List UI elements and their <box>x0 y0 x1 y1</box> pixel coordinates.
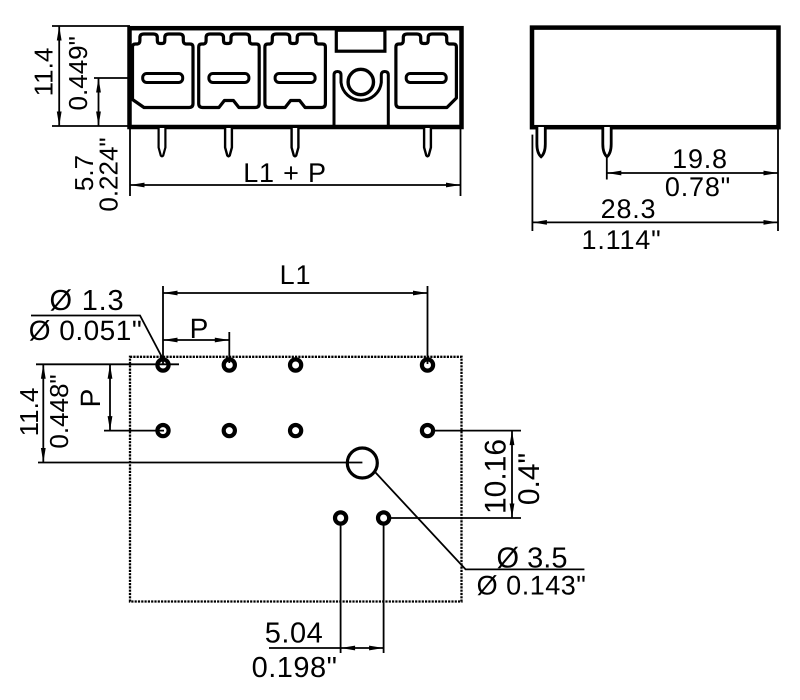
dimension text 0.198" <box>252 652 338 684</box>
dimension text 5.7 <box>69 155 99 191</box>
dimension text L1 + P <box>243 158 327 188</box>
dimension 10.16 reference lines <box>390 431 521 518</box>
dimension text 1.114" <box>582 225 662 255</box>
svg-text:5.04: 5.04 <box>265 618 323 650</box>
screw channel U-shape <box>334 72 388 126</box>
dimension text 28.3 <box>601 194 657 224</box>
dimension text 10.16 <box>479 439 512 514</box>
terminal block 3 <box>265 34 326 108</box>
svg-text:L1: L1 <box>280 260 312 290</box>
dimension text 0.4" <box>513 453 546 505</box>
hole row2 pos5 <box>422 425 433 436</box>
dimension P top line <box>163 338 229 343</box>
front pin 2 <box>225 128 232 156</box>
dimension text 19.8 <box>672 144 728 174</box>
dimension text 5.04 <box>265 618 323 650</box>
dimension 28.3 extension line <box>531 135 533 231</box>
dimension 5.04 line <box>269 646 384 651</box>
drilling plan dotted outline <box>130 357 462 602</box>
screw hole circle <box>348 69 373 94</box>
dimension L1 extension lines <box>163 286 428 364</box>
svg-text:Ø 0.051": Ø 0.051" <box>29 315 143 346</box>
svg-text:10.16: 10.16 <box>479 439 512 514</box>
svg-text:1.114": 1.114" <box>582 225 662 255</box>
terminal block 4 slot <box>406 74 446 83</box>
dimension L1 line <box>163 291 428 296</box>
connector body front view <box>130 28 462 127</box>
svg-text:0.4": 0.4" <box>513 453 546 505</box>
dimension 5.04 extension lines <box>341 525 384 654</box>
svg-text:0.78": 0.78" <box>665 172 731 202</box>
dimension P left line <box>108 364 113 430</box>
svg-text:L1 + P: L1 + P <box>243 158 327 188</box>
bottom hole left <box>335 512 346 523</box>
leader diameter 3.5 <box>376 473 585 570</box>
keying tab rectangle <box>336 30 385 51</box>
dimension 11.4 drill reference lines <box>36 364 362 462</box>
dimension text 11.4 front <box>28 48 58 97</box>
big mounting hole <box>347 448 377 478</box>
connector body side view <box>532 28 779 128</box>
dimension 11.4 front view line <box>57 26 62 126</box>
dimension L1 + P line <box>130 183 461 188</box>
hole row1 pos2 <box>224 359 235 370</box>
dimension text 0.448" drill <box>44 374 74 448</box>
dimension 5.7 extension line <box>94 77 130 79</box>
bottom hole right <box>378 512 389 523</box>
svg-text:P: P <box>75 389 106 408</box>
dimension 11.4 front view extension lines <box>52 26 130 126</box>
leader diameter 1.3 <box>31 316 163 360</box>
hole row1 pos5 <box>422 359 433 370</box>
dimension 19.8 line <box>607 171 778 176</box>
dimension text 11.4 drill <box>14 388 44 437</box>
hole row2 pos1 <box>157 425 168 436</box>
leader text diameter 3.5 <box>497 543 568 575</box>
dimension 19.8 extension lines <box>607 129 778 231</box>
terminal block 2 slot <box>209 74 249 83</box>
svg-text:28.3: 28.3 <box>601 194 657 224</box>
terminal block 1 <box>133 34 194 108</box>
terminal block 4 <box>396 34 457 108</box>
dimension text 0.78" <box>665 172 731 202</box>
svg-text:0.224": 0.224" <box>94 137 124 211</box>
svg-text:0.448": 0.448" <box>44 374 74 448</box>
leader text diameter 0.143" <box>477 571 587 601</box>
leader text diameter 1.3 <box>50 285 125 317</box>
svg-text:P: P <box>190 313 209 344</box>
front pin 1 <box>159 128 166 156</box>
dimension text P left <box>75 389 106 408</box>
side pin 1 <box>537 127 545 157</box>
hole row1 pos1 <box>157 359 168 370</box>
dimension L1 + P extension lines <box>130 128 461 196</box>
svg-text:0.198": 0.198" <box>252 652 338 684</box>
terminal block 1 slot <box>143 74 183 83</box>
dimension 10.16 line <box>510 431 515 518</box>
svg-text:11.4: 11.4 <box>14 388 44 437</box>
terminal block 2 <box>199 34 260 108</box>
dimension P top extension line <box>228 332 230 363</box>
hole row1 pos3 <box>290 359 301 370</box>
terminal block 3 slot <box>275 74 315 83</box>
dimension text 0.224" <box>94 137 124 211</box>
dimension 28.3 line <box>532 220 778 225</box>
dimension text L1 <box>280 260 312 290</box>
svg-text:0.449": 0.449" <box>63 36 93 110</box>
dimension text 0.449" front <box>63 36 93 110</box>
dimension P left reference line <box>104 430 164 432</box>
svg-text:19.8: 19.8 <box>672 144 728 174</box>
front pin 3 <box>292 128 299 156</box>
dimension 11.4 drill line <box>41 364 46 462</box>
svg-text:Ø 0.143": Ø 0.143" <box>477 571 587 601</box>
side pin 2 <box>603 127 611 157</box>
svg-text:Ø 1.3: Ø 1.3 <box>50 285 125 317</box>
dimension text P top <box>190 313 209 344</box>
dimension 5.7 line <box>96 78 101 126</box>
svg-text:11.4: 11.4 <box>28 48 58 97</box>
leader text diameter 0.051" <box>29 315 143 346</box>
front pin 4 <box>424 128 431 156</box>
hole row2 pos3 <box>290 425 301 436</box>
hole row2 pos2 <box>224 425 235 436</box>
